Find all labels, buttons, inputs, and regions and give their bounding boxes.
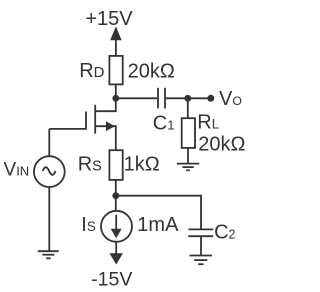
capacitor C2 (188, 229, 213, 236)
resistor RD (109, 56, 122, 85)
wire Vin top (48, 129, 50, 156)
node output junction dot (184, 95, 191, 102)
svg-text:1kΩ: 1kΩ (124, 154, 160, 176)
svg-text:-15V: -15V (91, 269, 132, 291)
ground (C2) (190, 256, 212, 265)
current source IS (101, 211, 132, 242)
node source junction dot (112, 192, 119, 199)
svg-text:1mA: 1mA (137, 214, 179, 236)
wire IS bottom (115, 242, 117, 255)
wire junction to C2 (116, 196, 201, 230)
ground (RL) (177, 164, 199, 171)
node drain junction dot (112, 95, 119, 102)
-15V power arrow (109, 253, 123, 264)
source Vin (AC source) (34, 156, 65, 187)
svg-text:+15V: +15V (85, 8, 133, 30)
+15V power arrow (110, 26, 121, 55)
wire RD bottom to drain node (115, 84, 117, 98)
wire C1 to output junction (166, 97, 188, 99)
output terminal Vo dot (207, 95, 214, 102)
resistor RL (182, 118, 195, 148)
capacitor C1 (158, 88, 165, 109)
channel line (94, 105, 96, 134)
wire junction to Vo terminal (188, 97, 211, 99)
source lead (95, 126, 116, 150)
wire RL bottom to ground (187, 148, 189, 164)
svg-text:20kΩ: 20kΩ (198, 133, 245, 155)
wire source node to IS (115, 196, 117, 211)
wire junction to RL (187, 98, 189, 118)
resistor RS (109, 150, 122, 180)
wire Vin bottom to ground (48, 187, 50, 251)
source arrowhead (106, 121, 115, 131)
drain lead (95, 98, 116, 111)
ground (VIN) (38, 251, 59, 258)
gate bar (85, 112, 87, 130)
svg-text:VIN: VIN (4, 159, 30, 180)
wire drain node to C1 (116, 97, 157, 99)
svg-text:RD: RD (79, 60, 104, 82)
transistor Q1 NMOS (49, 98, 116, 150)
wire RS bottom to source node (115, 180, 117, 196)
svg-text:20kΩ: 20kΩ (128, 60, 175, 82)
gate lead (49, 128, 86, 130)
wire C2 to ground (200, 236, 202, 255)
